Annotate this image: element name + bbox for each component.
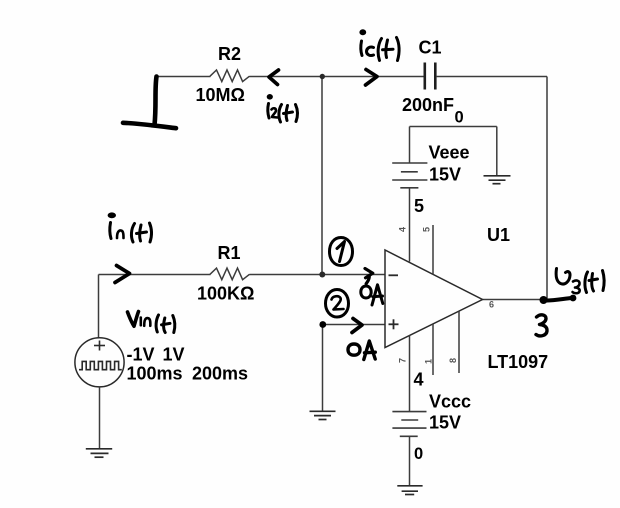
handwritten OA upper bbox=[361, 285, 383, 305]
battery Vccc bbox=[392, 412, 426, 437]
handwritten annotations bbox=[115, 70, 377, 333]
wire node 0 horizontal bbox=[410, 126, 497, 128]
wire pin7 op-amp to Vccc bbox=[409, 335, 411, 411]
wire Vccc to ground bbox=[409, 436, 411, 486]
pin8 stub bbox=[458, 311, 460, 373]
wire Veee top to node 0 bbox=[409, 127, 411, 164]
ground right of Veee bbox=[484, 176, 511, 184]
ground below noninverting input bbox=[310, 411, 336, 419]
svg-text:1: 1 bbox=[424, 359, 434, 364]
capacitor C1 bbox=[425, 63, 436, 90]
handwritten v3(t) label bbox=[556, 269, 604, 294]
wire source to ground bbox=[99, 387, 101, 449]
ground below V1 bbox=[86, 449, 112, 457]
V1 square wave glyph bbox=[79, 361, 122, 369]
op-amp plus sign bbox=[389, 319, 399, 329]
hand arrow input (in direction) bbox=[115, 266, 130, 283]
svg-text:15V: 15V bbox=[429, 413, 461, 433]
svg-text:4: 4 bbox=[414, 369, 424, 389]
svg-text:-1V: -1V bbox=[127, 345, 155, 365]
handwritten output node dot bbox=[540, 296, 548, 304]
wire C1 to right corner bbox=[437, 76, 547, 78]
wire R1 to inverting input bbox=[250, 274, 386, 276]
handwritten 3 at output bbox=[536, 315, 547, 336]
svg-text:200nF: 200nF bbox=[402, 95, 454, 115]
svg-text:0: 0 bbox=[414, 445, 423, 463]
wire R2 to C1 bbox=[250, 76, 424, 78]
battery Veee bbox=[392, 163, 427, 188]
svg-text:4: 4 bbox=[398, 227, 408, 232]
hand arrow left (i2 direction) bbox=[269, 70, 279, 85]
svg-text:10MΩ: 10MΩ bbox=[196, 85, 245, 105]
V1 plus sign bbox=[94, 341, 105, 351]
svg-text:R1: R1 bbox=[218, 243, 241, 263]
wire noninverting to ground bbox=[322, 325, 324, 412]
ground below Vccc bbox=[397, 486, 422, 495]
wire output bbox=[483, 299, 548, 301]
resistor R1 bbox=[210, 268, 250, 280]
resistor R2 bbox=[210, 70, 250, 82]
wire right vertical bbox=[546, 77, 548, 300]
hand scribble top-left horizontal bbox=[123, 123, 176, 128]
wire to ground right of Veee bbox=[496, 127, 498, 176]
svg-text:5: 5 bbox=[422, 227, 432, 232]
svg-text:Vccc: Vccc bbox=[429, 392, 471, 412]
svg-text:6: 6 bbox=[489, 300, 494, 310]
pin1 stub bbox=[432, 324, 434, 375]
wire top horizontal left segment bbox=[156, 76, 211, 78]
handwritten OA lower bbox=[348, 341, 375, 360]
svg-text:8: 8 bbox=[448, 358, 458, 363]
svg-text:100ms: 100ms bbox=[127, 364, 183, 384]
svg-text:C1: C1 bbox=[419, 38, 442, 58]
hand arrow at inverting input bbox=[365, 269, 373, 284]
svg-text:100KΩ: 100KΩ bbox=[197, 283, 254, 303]
op-amp U1 triangle bbox=[385, 250, 483, 348]
handwritten Vin(t) label bbox=[128, 312, 175, 333]
svg-text:200ms: 200ms bbox=[192, 364, 248, 384]
junction node top (R2/C1 feedback) bbox=[320, 74, 325, 79]
pin5 stub bbox=[432, 225, 434, 274]
svg-text:5: 5 bbox=[414, 196, 424, 216]
junction node inverting input bbox=[319, 272, 325, 278]
svg-text:U1: U1 bbox=[487, 225, 510, 245]
svg-text:15V: 15V bbox=[429, 165, 461, 185]
op-amp minus sign bbox=[389, 274, 399, 276]
svg-text:LT1097: LT1097 bbox=[488, 352, 549, 372]
handwritten circled 2 bbox=[326, 290, 349, 318]
svg-text:7: 7 bbox=[398, 358, 408, 363]
wire noninverting input bbox=[323, 324, 386, 326]
svg-text:0: 0 bbox=[455, 108, 464, 126]
handwritten ic(t) label bbox=[359, 29, 399, 60]
handwritten node dot noninverting bbox=[319, 321, 326, 328]
wire input horizontal left bbox=[99, 274, 211, 276]
handwritten in(t) label bbox=[108, 212, 152, 242]
svg-text:R2: R2 bbox=[218, 44, 241, 64]
wire source vertical top bbox=[98, 275, 100, 338]
voltage source V1 circle bbox=[75, 338, 124, 387]
handwritten output probe end dot bbox=[570, 295, 577, 302]
handwritten output probe stroke bbox=[547, 298, 572, 301]
handwritten i2(t) label bbox=[267, 94, 298, 122]
svg-text:Veee: Veee bbox=[429, 142, 470, 162]
wire pin4 Veee to op-amp bbox=[409, 188, 411, 262]
hand arrow right (ic direction) bbox=[366, 70, 378, 86]
hand scribble top-left vertical bbox=[155, 77, 157, 126]
hand arrow at noninverting input bbox=[352, 319, 362, 333]
wire feedback vertical bbox=[321, 77, 323, 275]
svg-text:1V: 1V bbox=[163, 345, 185, 365]
handwritten circled 1 bbox=[330, 238, 353, 266]
